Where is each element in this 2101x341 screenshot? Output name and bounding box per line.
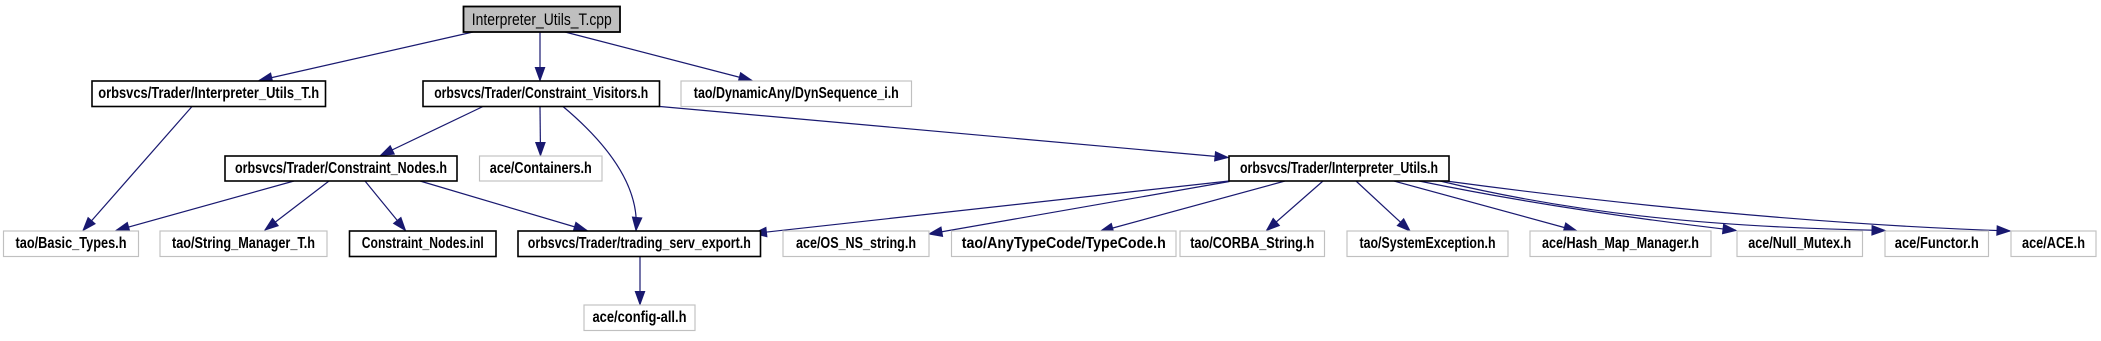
svg-text:ace/config-all.h: ace/config-all.h <box>593 309 687 326</box>
node orbsvcs/Trader/Interpreter_Utils_T.h <box>92 81 326 107</box>
edge Interpreter_Utils.h->Hash_Map_Manager.h <box>1394 181 1577 232</box>
svg-text:tao/Basic_Types.h: tao/Basic_Types.h <box>16 235 127 252</box>
node ace/config-all.h <box>584 305 695 331</box>
edge Constraint_Nodes.h->Constraint_Nodes.inl <box>365 181 406 231</box>
node tao/String_Manager_T.h <box>160 231 327 257</box>
node ace/OS_NS_string.h <box>783 231 929 257</box>
edge Constraint_Visitors.h->Containers.h <box>536 107 545 156</box>
node orbsvcs/Trader/Interpreter_Utils.h <box>1229 156 1449 181</box>
edge cpp->Constraint_Visitors.h <box>535 32 544 81</box>
svg-text:Interpreter_Utils_T.cpp: Interpreter_Utils_T.cpp <box>472 10 612 29</box>
node ace/Functor.h <box>1885 231 1989 257</box>
svg-text:tao/AnyTypeCode/TypeCode.h: tao/AnyTypeCode/TypeCode.h <box>962 235 1166 252</box>
svg-text:ace/Hash_Map_Manager.h: ace/Hash_Map_Manager.h <box>1542 235 1699 252</box>
svg-text:orbsvcs/Trader/Interpreter_Uti: orbsvcs/Trader/Interpreter_Utils.h <box>1240 160 1438 177</box>
node Constraint_Nodes.inl <box>350 231 497 257</box>
node ace/Null_Mutex.h <box>1737 231 1863 257</box>
node tao/DynamicAny/DynSequence_i.h <box>681 81 912 107</box>
edge cpp->DynSequence_i.h <box>565 32 752 82</box>
svg-text:Constraint_Nodes.inl: Constraint_Nodes.inl <box>362 235 484 252</box>
node Interpreter_Utils_T.cpp <box>464 7 621 33</box>
edge Interpreter_Utils.h->Null_Mutex.h <box>1419 181 1736 234</box>
edge Interpreter_Utils.h->trading_serv_export.h <box>754 181 1230 237</box>
svg-text:ace/ACE.h: ace/ACE.h <box>2022 235 2085 252</box>
svg-text:orbsvcs/Trader/Constraint_Node: orbsvcs/Trader/Constraint_Nodes.h <box>235 160 447 177</box>
svg-text:orbsvcs/Trader/trading_serv_ex: orbsvcs/Trader/trading_serv_export.h <box>528 235 751 252</box>
svg-text:tao/CORBA_String.h: tao/CORBA_String.h <box>1190 235 1314 252</box>
node tao/SystemException.h <box>1347 231 1508 257</box>
edge Constraint_Nodes.h->trading_serv_export.h <box>420 181 587 231</box>
edge Interpreter_Utils.h->CORBA_String.h <box>1267 181 1324 231</box>
edge Constraint_Nodes.h->String_Manager_T.h <box>265 181 329 230</box>
svg-text:orbsvcs/Trader/Interpreter_Uti: orbsvcs/Trader/Interpreter_Utils_T.h <box>98 85 319 102</box>
svg-text:orbsvcs/Trader/Constraint_Visi: orbsvcs/Trader/Constraint_Visitors.h <box>434 85 648 102</box>
edge Interpreter_Utils.h->OS_NS_string.h <box>929 182 1230 237</box>
svg-text:tao/DynamicAny/DynSequence_i.h: tao/DynamicAny/DynSequence_i.h <box>694 85 899 102</box>
svg-text:tao/SystemException.h: tao/SystemException.h <box>1360 235 1496 252</box>
node ace/Containers.h <box>480 156 603 181</box>
svg-text:ace/Containers.h: ace/Containers.h <box>490 160 592 177</box>
edge Constraint_Visitors.h->trading_serv_export.h <box>563 107 642 231</box>
edge Constraint_Nodes.h->Basic_Types.h <box>116 181 294 232</box>
edge Interpreter_Utils.h->ACE.h <box>1446 181 2010 235</box>
node orbsvcs/Trader/Constraint_Visitors.h <box>423 81 660 107</box>
node tao/CORBA_String.h <box>1180 231 1325 257</box>
edge Constraint_Visitors.h->Constraint_Nodes.h <box>381 107 484 156</box>
node ace/Hash_Map_Manager.h <box>1530 231 1711 257</box>
edge Constraint_Visitors.h->Interpreter_Utils.h <box>660 107 1228 162</box>
edge Interpreter_Utils.h->TypeCode.h <box>1100 181 1285 233</box>
edge Interpreter_Utils_T.h->Basic_Types.h <box>83 107 192 231</box>
svg-text:ace/OS_NS_string.h: ace/OS_NS_string.h <box>796 235 916 252</box>
edge cpp->Interpreter_Utils_T.h <box>259 32 473 82</box>
node orbsvcs/Trader/Constraint_Nodes.h <box>225 156 457 181</box>
node tao/Basic_Types.h <box>4 231 139 257</box>
svg-text:ace/Functor.h: ace/Functor.h <box>1895 235 1979 252</box>
edge Interpreter_Utils.h->SystemException.h <box>1356 181 1410 231</box>
svg-text:tao/String_Manager_T.h: tao/String_Manager_T.h <box>172 235 315 252</box>
node orbsvcs/Trader/trading_serv_export.h <box>518 231 761 257</box>
svg-text:ace/Null_Mutex.h: ace/Null_Mutex.h <box>1748 235 1851 252</box>
edge trading_serv_export.h->config-all.h <box>635 257 644 305</box>
node ace/ACE.h <box>2011 231 2096 257</box>
node tao/AnyTypeCode/TypeCode.h <box>952 231 1177 257</box>
edge Interpreter_Utils.h->Functor.h <box>1440 181 1885 235</box>
